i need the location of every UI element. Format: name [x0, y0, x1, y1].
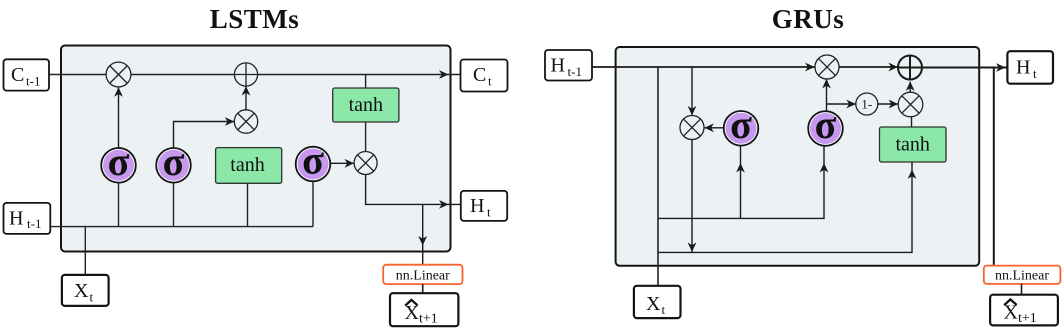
svg-text:tanh: tanh [230, 154, 264, 176]
wire update multiply to add gate (arrow) [839, 63, 898, 72]
wire second multiply up to add gate (arrow) [906, 81, 915, 92]
svg-text:C: C [473, 64, 486, 86]
add gate [234, 63, 257, 86]
svg-text:t: t [487, 205, 491, 220]
feed wire bus to sigma1 [118, 183, 120, 227]
svg-text:H: H [9, 208, 23, 230]
wire tanh top to second multiply [911, 117, 913, 127]
svg-text:t: t [1033, 66, 1037, 81]
wire H line down to reset multiply (arrow) [688, 67, 697, 116]
box Xhat_t+1 (LSTM) [390, 293, 458, 326]
wire X_t up to bus [84, 227, 86, 275]
bus wire from H_t-1 [50, 226, 313, 228]
box X_t (LSTM) [62, 275, 109, 306]
svg-text:H: H [1016, 57, 1030, 79]
svg-text:σ: σ [815, 102, 837, 147]
box Xhat_t+1 (GRU) [990, 295, 1058, 326]
multiply gate (output) [354, 152, 377, 175]
svg-text:t-1: t-1 [568, 64, 582, 79]
wire add gate to H_t (arrow) [922, 63, 1007, 72]
svg-text:t-1: t-1 [27, 216, 41, 231]
svg-text:σ: σ [108, 139, 130, 184]
svg-text:1-: 1- [861, 97, 872, 112]
box H_t-1 (GRU) [545, 50, 592, 81]
tanh box (candidate) [216, 148, 282, 184]
wire 1- to second multiply (arrow) [878, 100, 898, 109]
tanh box (GRU) [880, 127, 947, 162]
nn.Linear box (LSTM) [383, 265, 462, 284]
svg-text:t: t [488, 74, 492, 89]
svg-text:t: t [90, 290, 94, 305]
wire reset sigma to reset multiply (arrow left) [704, 123, 723, 132]
wire reset multiply down to bus2 (arrow down) [688, 140, 697, 253]
sigma gate (update) [808, 102, 843, 147]
svg-text:GRUs: GRUs [772, 4, 845, 34]
multiply gate (forget) [106, 62, 131, 87]
svg-text:H: H [551, 55, 565, 77]
box C_t-1 [4, 59, 50, 90]
wire branch to 1- gate (arrow right) [827, 100, 856, 109]
wire sigma1 to forget gate (arrow up) [114, 87, 123, 148]
feed wire bus to sigma3 [312, 181, 314, 226]
sigma gate 2 (input) [156, 139, 191, 184]
box H_t (GRU) [1007, 51, 1053, 83]
tanh box (output) [333, 88, 399, 122]
svg-text:tanh: tanh [895, 134, 929, 156]
add gate (GRU) [898, 56, 922, 80]
wire output tanh to output multiply [365, 122, 367, 151]
LSTM cell body [61, 46, 451, 252]
wire candidate multiply to add gate (arrow up) [242, 86, 251, 110]
vertical X/H bus wire [657, 67, 659, 286]
svg-text:σ: σ [730, 102, 752, 147]
wire output multiply to H_t (down, right, arrow) [366, 175, 461, 209]
svg-text:X: X [646, 293, 661, 315]
wire sigma3 to output multiply (arrow right) [331, 159, 355, 168]
wire nn.Linear to Xhat (GRU) [1021, 284, 1023, 295]
GRU cell body [616, 47, 980, 266]
svg-text:nn.Linear: nn.Linear [396, 268, 450, 283]
wire C line: C_t-1 to C_t [49, 74, 461, 76]
wire sigma2 to candidate multiply (up and right, arrow) [174, 117, 235, 148]
wire update sigma up to update multiply (arrow) [822, 79, 831, 111]
multiply gate (update, top) [815, 55, 839, 79]
svg-text:t+1: t+1 [1018, 311, 1037, 326]
wire H line from H_t-1 to update multiply (arrow) [592, 63, 815, 72]
box H_t-1 [4, 203, 51, 234]
svg-text:σ: σ [302, 138, 324, 183]
nn.Linear box (GRU) [984, 266, 1061, 284]
sigma gate 3 (output) [296, 138, 331, 183]
svg-text:C: C [11, 64, 24, 86]
box H_t (LSTM) [461, 191, 507, 221]
feed wire bus to sigma2 [173, 183, 175, 227]
wire output junction down to nn.Linear (GRU) [993, 68, 995, 266]
svg-text:H: H [470, 195, 484, 217]
svg-text:t-1: t-1 [26, 74, 40, 89]
svg-text:σ: σ [163, 139, 185, 184]
wire down to nn.Linear (arrow) [418, 204, 427, 264]
svg-text:X: X [74, 280, 89, 302]
multiply gate (reset) [680, 116, 704, 140]
box C_t [461, 60, 508, 92]
feed wire bus1 to reset sigma (arrow up) [736, 146, 745, 219]
svg-text:LSTMs: LSTMs [210, 4, 300, 34]
svg-text:tanh: tanh [349, 94, 383, 116]
svg-text:t+1: t+1 [419, 312, 438, 327]
svg-text:nn.Linear: nn.Linear [995, 269, 1049, 284]
bus2 wire (to tanh, arrow up at end) [658, 162, 916, 252]
gate 1- (one minus) [856, 93, 878, 115]
wire nn.Linear to Xhat (LSTM) [422, 284, 424, 293]
svg-text:t: t [662, 302, 666, 317]
multiply gate (second, 1-z) [898, 92, 923, 117]
wire C line down into output tanh [365, 75, 367, 89]
multiply gate (candidate) [234, 110, 257, 133]
arrowhead into C_t [439, 70, 449, 79]
bus1 wire (to update sigma, arrow up at end) [658, 146, 828, 219]
feed wire bus to candidate tanh [247, 183, 249, 226]
box X_t (GRU) [634, 286, 681, 318]
sigma gate 1 (forget) [101, 139, 136, 184]
sigma gate (reset) [724, 102, 759, 147]
